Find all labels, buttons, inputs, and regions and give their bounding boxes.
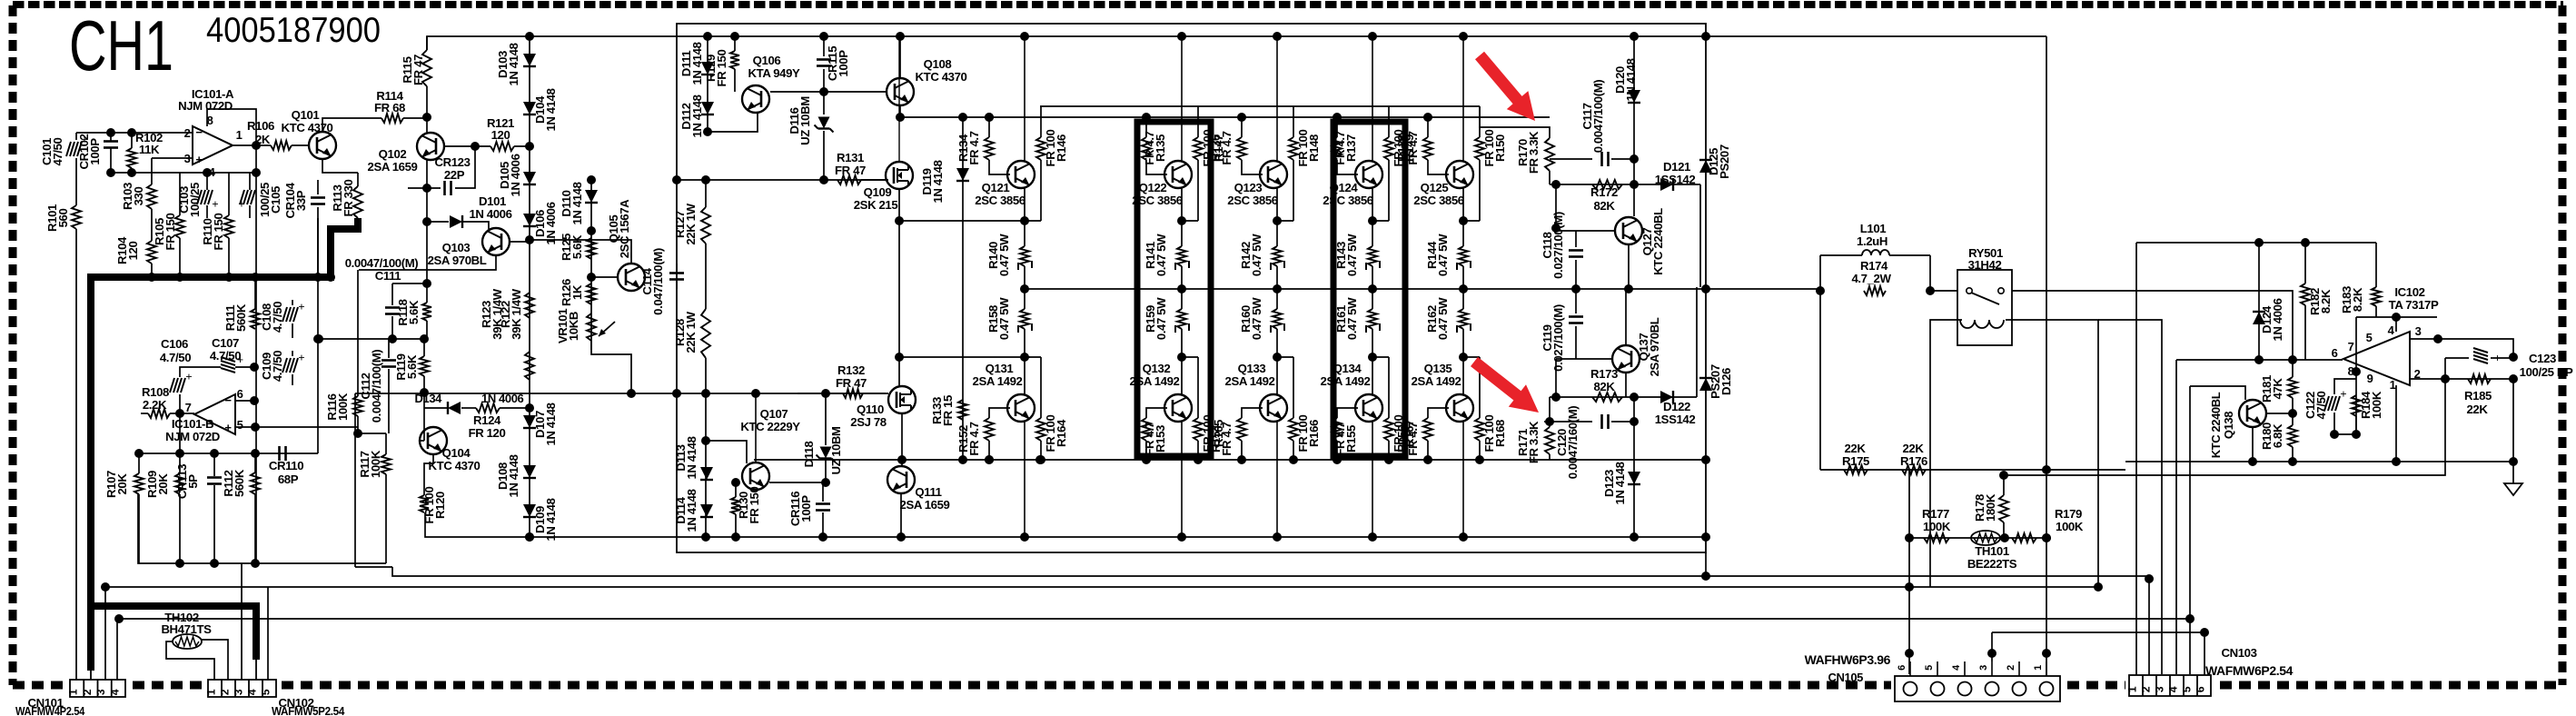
transistor Q101: [309, 132, 336, 159]
TH102 right lead: [202, 640, 228, 680]
resistor R176 sym: [1902, 465, 1926, 474]
page border right: [2559, 5, 2567, 685]
diode D114: [700, 504, 713, 517]
column D111 D112: [707, 36, 708, 132]
svg-text:5: 5: [237, 418, 243, 432]
label R171: [1516, 421, 1541, 463]
svg-text:R124: R124: [473, 413, 501, 427]
svg-text:Q106: Q106: [753, 54, 781, 67]
node Q135 coll: [1459, 532, 1468, 542]
label D124: [2260, 298, 2284, 341]
svg-text:R175: R175: [1842, 454, 1869, 468]
svg-text:100K: 100K: [2370, 391, 2383, 419]
svg-text:1SS142: 1SS142: [1655, 413, 1696, 426]
resistor R174: [1864, 286, 1886, 295]
svg-text:TA 7317P: TA 7317P: [2389, 298, 2439, 312]
node x2102 646: [1905, 582, 1914, 592]
node x1060 top: [958, 113, 967, 122]
wire pin2 input: [76, 132, 193, 134]
column D123: [1633, 397, 1635, 537]
label R104: [115, 236, 140, 264]
svg-text:C123: C123: [2529, 352, 2556, 365]
stub R147: [1182, 220, 1198, 222]
svg-text:R173: R173: [1590, 367, 1618, 381]
label R156: [1395, 422, 1420, 455]
label Q123: [1227, 181, 1278, 207]
svg-text:39K 1/4W: 39K 1/4W: [510, 288, 523, 339]
svg-text:22K: 22K: [1845, 442, 1867, 455]
wire D121 down: [1699, 184, 1701, 287]
svg-text:100K: 100K: [369, 450, 382, 478]
node Q123 coll: [1273, 32, 1282, 41]
label R135: [1143, 131, 1167, 164]
diode D120: [1628, 90, 1640, 103]
capacitor C114: [669, 264, 684, 289]
wire R175 rail: [1820, 469, 2125, 471]
node R136 top: [1237, 113, 1246, 122]
transistor Q134: [1355, 394, 1382, 422]
CN103 pin numbers: [2126, 686, 2207, 692]
gate bias rail y198: [677, 179, 886, 181]
page border bottom segment: [282, 681, 1891, 690]
node Q102e: [471, 142, 480, 151]
node r173 b: [1630, 393, 1639, 402]
label D116: [788, 96, 812, 145]
svg-text:6: 6: [2332, 346, 2338, 360]
resistor R141: [1175, 221, 1189, 289]
label Q135: [1412, 362, 1461, 388]
node D116 bot: [819, 175, 828, 184]
svg-text:100K: 100K: [336, 393, 350, 421]
connector CN105 box: [1895, 676, 2060, 701]
resistor R130: [731, 482, 740, 537]
svg-text:2SC 1567A: 2SC 1567A: [618, 199, 631, 258]
label R131: [835, 151, 866, 177]
page border bottom segment: [2067, 681, 2125, 690]
relay coil: [1960, 320, 2004, 328]
svg-text:7: 7: [2348, 340, 2354, 353]
svg-text:Q131: Q131: [986, 362, 1014, 375]
wire pin5: [235, 426, 358, 428]
label R101: [45, 204, 70, 232]
node Q138 base: [2288, 409, 2297, 418]
node cn105 p6: [1905, 649, 1914, 658]
svg-text:L101: L101: [1860, 222, 1887, 235]
capacitor C112: [381, 339, 396, 433]
wire Q138 base: [2266, 413, 2293, 414]
wire feed y267: [2136, 238, 2376, 247]
label R147: [1201, 130, 1225, 167]
node rail523 r178: [0, 0, 1, 1]
op-amp IC101-A: [184, 114, 243, 179]
label D101: [469, 194, 511, 221]
label C109: [260, 351, 284, 382]
wire c119 drop: [1555, 359, 1557, 397]
CN105 circles: [1904, 682, 2054, 696]
svg-text:1N 4148: 1N 4148: [570, 182, 584, 224]
label TH102: [161, 611, 212, 636]
label R154: [1209, 422, 1234, 455]
svg-text:R148: R148: [1307, 134, 1321, 162]
label C120: [1555, 406, 1580, 480]
label R137: [1333, 131, 1358, 164]
node R130 bot: [731, 532, 740, 542]
svg-text:Q134: Q134: [1333, 362, 1362, 375]
resistor R123: [525, 352, 534, 380]
svg-text:D101: D101: [479, 194, 506, 208]
wire Q107 base: [708, 441, 747, 463]
resistor R168: [1475, 357, 1484, 460]
node R138 top: [1423, 113, 1432, 122]
capacitor C107 sym: [221, 356, 247, 373]
svg-text:100K: 100K: [2056, 520, 2084, 533]
svg-text:5: 5: [1924, 665, 1935, 671]
svg-text:5P: 5P: [186, 474, 200, 489]
wire C106 top: [180, 367, 221, 377]
svg-text:Q135: Q135: [1424, 362, 1452, 375]
svg-text:R177: R177: [1922, 507, 1949, 521]
label C101: [40, 137, 64, 165]
svg-text:2SA 970BL: 2SA 970BL: [1648, 317, 1661, 376]
svg-text:WAFMW5P2.54: WAFMW5P2.54: [272, 704, 345, 716]
transistor Q132: [1164, 394, 1192, 422]
potentiometer VR101: [587, 313, 615, 341]
capacitor CR113: [207, 453, 222, 563]
diode D104: [523, 102, 536, 114]
resistor R173 sym: [1592, 393, 1622, 402]
svg-text:CN105: CN105: [1828, 671, 1864, 684]
wire Q125 emitter: [1462, 187, 1464, 221]
label R162: [1425, 297, 1450, 340]
resistor R140: [1018, 221, 1032, 289]
resistor R118: [422, 283, 431, 339]
stub R165: [1182, 356, 1198, 358]
svg-text:R176: R176: [1900, 454, 1927, 468]
svg-text:FR 3.3K: FR 3.3K: [1527, 421, 1541, 463]
resistor R158: [1018, 289, 1032, 357]
feedback wire pin8: [207, 109, 256, 145]
transistor Q106: [742, 85, 769, 113]
svg-text:100K: 100K: [1923, 520, 1951, 533]
svg-text:2SA 1492: 2SA 1492: [973, 374, 1023, 388]
svg-text:560K: 560K: [233, 469, 246, 497]
resistor R170: [1480, 106, 1554, 184]
vertical x2310 to rail: [2097, 586, 2099, 588]
wire C118 row: [1556, 230, 1615, 232]
right vertical from top rail x2253: [2046, 36, 2047, 676]
label R170: [1516, 131, 1541, 174]
label C103: [177, 183, 202, 217]
resistor R144: [1457, 221, 1471, 289]
node x2253 517: [2042, 465, 2051, 474]
svg-text:R150: R150: [1493, 134, 1507, 162]
label D111: [679, 42, 704, 85]
transistor Q137: [1612, 345, 1640, 373]
label TH101: [1967, 544, 2017, 571]
wire y696: [1992, 631, 2204, 633]
thermistor TH101: [1971, 531, 2000, 545]
label R155: [1333, 422, 1358, 455]
svg-text:FR 47: FR 47: [836, 376, 867, 390]
node r172 b: [1630, 180, 1639, 189]
svg-text:1: 1: [2390, 378, 2396, 392]
transistor Q121: [1007, 161, 1035, 188]
svg-text:FR 68: FR 68: [374, 101, 405, 114]
svg-text:8.2K: 8.2K: [2351, 287, 2364, 312]
wire C107 right: [235, 366, 254, 368]
node gnd c: [203, 168, 212, 177]
wire R172 row: [1550, 184, 1700, 185]
label CR116: [788, 492, 813, 526]
node x583 591b: [525, 532, 534, 542]
node r173 a: [1551, 393, 1560, 402]
label R108: [142, 385, 169, 412]
relay contact out: [2012, 291, 2293, 360]
resistor R136: [1237, 117, 1263, 174]
svg-text:2.2K: 2.2K: [143, 398, 167, 412]
node C123: [2509, 353, 2518, 362]
red arrow lower pointing at R171: [1471, 357, 1539, 413]
svg-text:KTA 949Y: KTA 949Y: [748, 66, 800, 80]
svg-text:22P: 22P: [444, 168, 465, 182]
resistor R153: [1142, 408, 1167, 460]
svg-text:3: 3: [1978, 665, 1989, 671]
svg-text:Q132: Q132: [1143, 362, 1171, 375]
svg-text:2SA 970BL: 2SA 970BL: [428, 254, 487, 267]
bottom rail y620: [138, 494, 386, 563]
label R180: [2260, 423, 2284, 450]
svg-text:R179: R179: [2055, 507, 2082, 521]
label D122: [1655, 400, 1696, 426]
wire D124 col: [2258, 243, 2260, 360]
node x282 a: [250, 396, 259, 405]
svg-text:1N 4006: 1N 4006: [544, 202, 558, 244]
wire pin2 out: [2410, 378, 2513, 380]
svg-text:Q102: Q102: [379, 147, 407, 161]
wire pin3 input: [152, 157, 193, 159]
svg-text:39K 1/4W: 39K 1/4W: [490, 288, 504, 339]
resistor R134: [985, 117, 1010, 174]
svg-text:2SJ 78: 2SJ 78: [850, 415, 886, 429]
wire Q104 base: [420, 408, 424, 441]
label R177: [1922, 507, 1951, 533]
node R124: [525, 403, 534, 413]
transistor Q103: [482, 228, 510, 255]
capacitor C123: [2445, 348, 2513, 379]
label R105: [153, 214, 177, 251]
label C111: [375, 269, 401, 283]
wire Q137 bot: [1625, 373, 1627, 397]
svg-text:+: +: [185, 370, 192, 383]
svg-text:2SC 3856: 2SC 3856: [975, 194, 1025, 207]
capacitor C109: [282, 351, 305, 385]
wire Q109 source to node: [898, 189, 900, 385]
svg-text:5: 5: [2366, 331, 2373, 344]
node cr110 a: [134, 449, 144, 458]
node cr110 c: [210, 449, 219, 458]
svg-text:R174: R174: [1860, 259, 1888, 273]
label CR115: [826, 46, 850, 81]
transistor Q135: [1446, 394, 1473, 422]
node rail40 right: [1701, 32, 1710, 41]
svg-text:CR123: CR123: [434, 155, 470, 169]
wire C111 bridge: [392, 283, 427, 284]
label Q127: [1640, 208, 1665, 275]
label D123: [1602, 462, 1627, 504]
label D103: [496, 43, 520, 85]
label R126: [560, 279, 584, 306]
wire pin4 row: [2356, 316, 2437, 318]
svg-text:0.47 5W: 0.47 5W: [1436, 234, 1450, 276]
node c118 top: [1551, 224, 1560, 233]
svg-text:R135: R135: [1154, 134, 1167, 162]
label C111 value: [345, 256, 419, 270]
wire VR101 bottom: [591, 341, 631, 393]
label R150: [1482, 130, 1507, 167]
stub R146: [1025, 220, 1041, 222]
resistor R149: [1384, 106, 1393, 221]
label CR104: [283, 182, 308, 218]
label Q124: [1323, 181, 1373, 207]
label C106: [160, 337, 191, 364]
node r184 bot: [2352, 430, 2361, 439]
node R159 bot: [1177, 353, 1186, 362]
node Q105 c: [627, 389, 636, 398]
node CR115 mid: [819, 87, 828, 96]
svg-text:2: 2: [2006, 665, 2016, 671]
svg-text:0.0047/100(M): 0.0047/100(M): [345, 256, 419, 270]
node Q122 e: [1177, 216, 1186, 225]
node x583 D134: [525, 532, 534, 542]
label R178: [1973, 493, 1997, 522]
svg-text:100P: 100P: [837, 50, 850, 77]
label Q101: [282, 108, 333, 134]
transistor Q133: [1260, 394, 1287, 422]
resistor R129: [730, 36, 739, 92]
label Q125: [1413, 181, 1464, 207]
svg-text:8.2K: 8.2K: [2319, 289, 2333, 313]
vertical x2396 pin4col: [2175, 360, 2177, 674]
stub R166: [1277, 356, 1293, 358]
label R152: [956, 422, 981, 455]
node cn102 p5: [0, 0, 1, 1]
label CR110: [269, 459, 303, 486]
node bold junction: [326, 273, 335, 282]
resistor R109: [175, 413, 184, 563]
label R111: [223, 303, 248, 332]
svg-text:2SA 1492: 2SA 1492: [1412, 374, 1461, 388]
svg-text:IC102: IC102: [2394, 285, 2424, 299]
CN102 pin numbers: [205, 689, 272, 695]
svg-text:9: 9: [2367, 372, 2373, 385]
wire Q108 emitter: [899, 105, 901, 117]
svg-text:FR 150: FR 150: [748, 487, 761, 524]
svg-text:20K: 20K: [115, 473, 129, 495]
label Q104: [429, 446, 481, 472]
resistor R155: [1333, 408, 1358, 460]
wire Q132 emitter: [1181, 357, 1183, 395]
label R127: [673, 203, 698, 244]
svg-text:1: 1: [2126, 686, 2139, 692]
wire Q133 emitter: [1276, 357, 1278, 395]
svg-text:47/50: 47/50: [51, 137, 64, 165]
svg-text:0.47 5W: 0.47 5W: [1154, 234, 1168, 276]
wire pin6: [235, 400, 254, 402]
wire TH101 row: [1909, 537, 2046, 539]
transistor Q138: [2239, 400, 2266, 427]
node rail646: [101, 582, 110, 592]
label Q107: [740, 407, 800, 433]
label Q133: [1225, 362, 1275, 388]
page border left: [9, 5, 17, 685]
label Q121: [975, 181, 1025, 207]
node R185 right: [2509, 374, 2518, 383]
resistor R152: [985, 408, 1010, 460]
svg-text:5: 5: [260, 689, 272, 695]
CN103 pin6 wire: [2204, 632, 2205, 675]
stub R168: [1463, 356, 1480, 358]
capacitor C120: [1544, 414, 1634, 429]
transistor Q104: [420, 427, 447, 454]
label R109: [145, 471, 170, 498]
wire Q134 emitter: [1372, 357, 1373, 395]
svg-text:R185: R185: [2464, 389, 2492, 403]
wire R116-R117: [358, 433, 386, 434]
svg-text:Q138: Q138: [2222, 412, 2235, 439]
label R133: [930, 395, 955, 426]
svg-text:0.0047/100(M): 0.0047/100(M): [1591, 80, 1605, 154]
wire mid rail to relay: [1930, 290, 1957, 292]
diode D125: [1699, 160, 1712, 173]
resistor R183: [2372, 243, 2381, 317]
svg-text:TH101: TH101: [1975, 544, 2009, 558]
node Q121 coll: [1020, 32, 1029, 41]
svg-text:R132: R132: [837, 363, 865, 377]
bottom rail y646: [105, 586, 2098, 588]
label R136: [1209, 131, 1234, 164]
svg-text:100/25: 100/25: [188, 183, 202, 217]
diode D106: [523, 214, 536, 226]
CN101 pin4 wire: [116, 619, 118, 680]
svg-text:68P: 68P: [278, 472, 299, 486]
CN105 pin numbers: [1897, 664, 2044, 671]
svg-text:C107: C107: [212, 336, 239, 350]
capacitor C119: [1569, 289, 1583, 359]
svg-text:5: 5: [2181, 686, 2194, 692]
node D134 top: [420, 388, 429, 397]
resistor R127: [701, 180, 710, 264]
label R120: [422, 487, 447, 524]
svg-text:NJM 072D: NJM 072D: [165, 430, 220, 443]
svg-text:D121: D121: [1663, 160, 1690, 174]
node R143 rail: [1368, 284, 1377, 293]
diode D110: [585, 190, 598, 203]
resistor R171: [1545, 397, 1554, 460]
label R148: [1296, 130, 1321, 167]
resistor R185 sym: [2468, 374, 2491, 383]
wire Q111 emitter: [900, 493, 902, 537]
node x282 b: [251, 449, 260, 458]
resistor R181: [2288, 360, 2297, 413]
svg-text:D118: D118: [802, 441, 816, 467]
label CN102 type: [272, 704, 345, 716]
wire Q103 bottom: [359, 255, 496, 270]
node rail506 a: [985, 455, 994, 464]
resistor R101: [72, 205, 81, 680]
node x2125: [0, 0, 1, 1]
resistor R114: [381, 114, 427, 123]
svg-text:PS207: PS207: [1718, 144, 1731, 179]
